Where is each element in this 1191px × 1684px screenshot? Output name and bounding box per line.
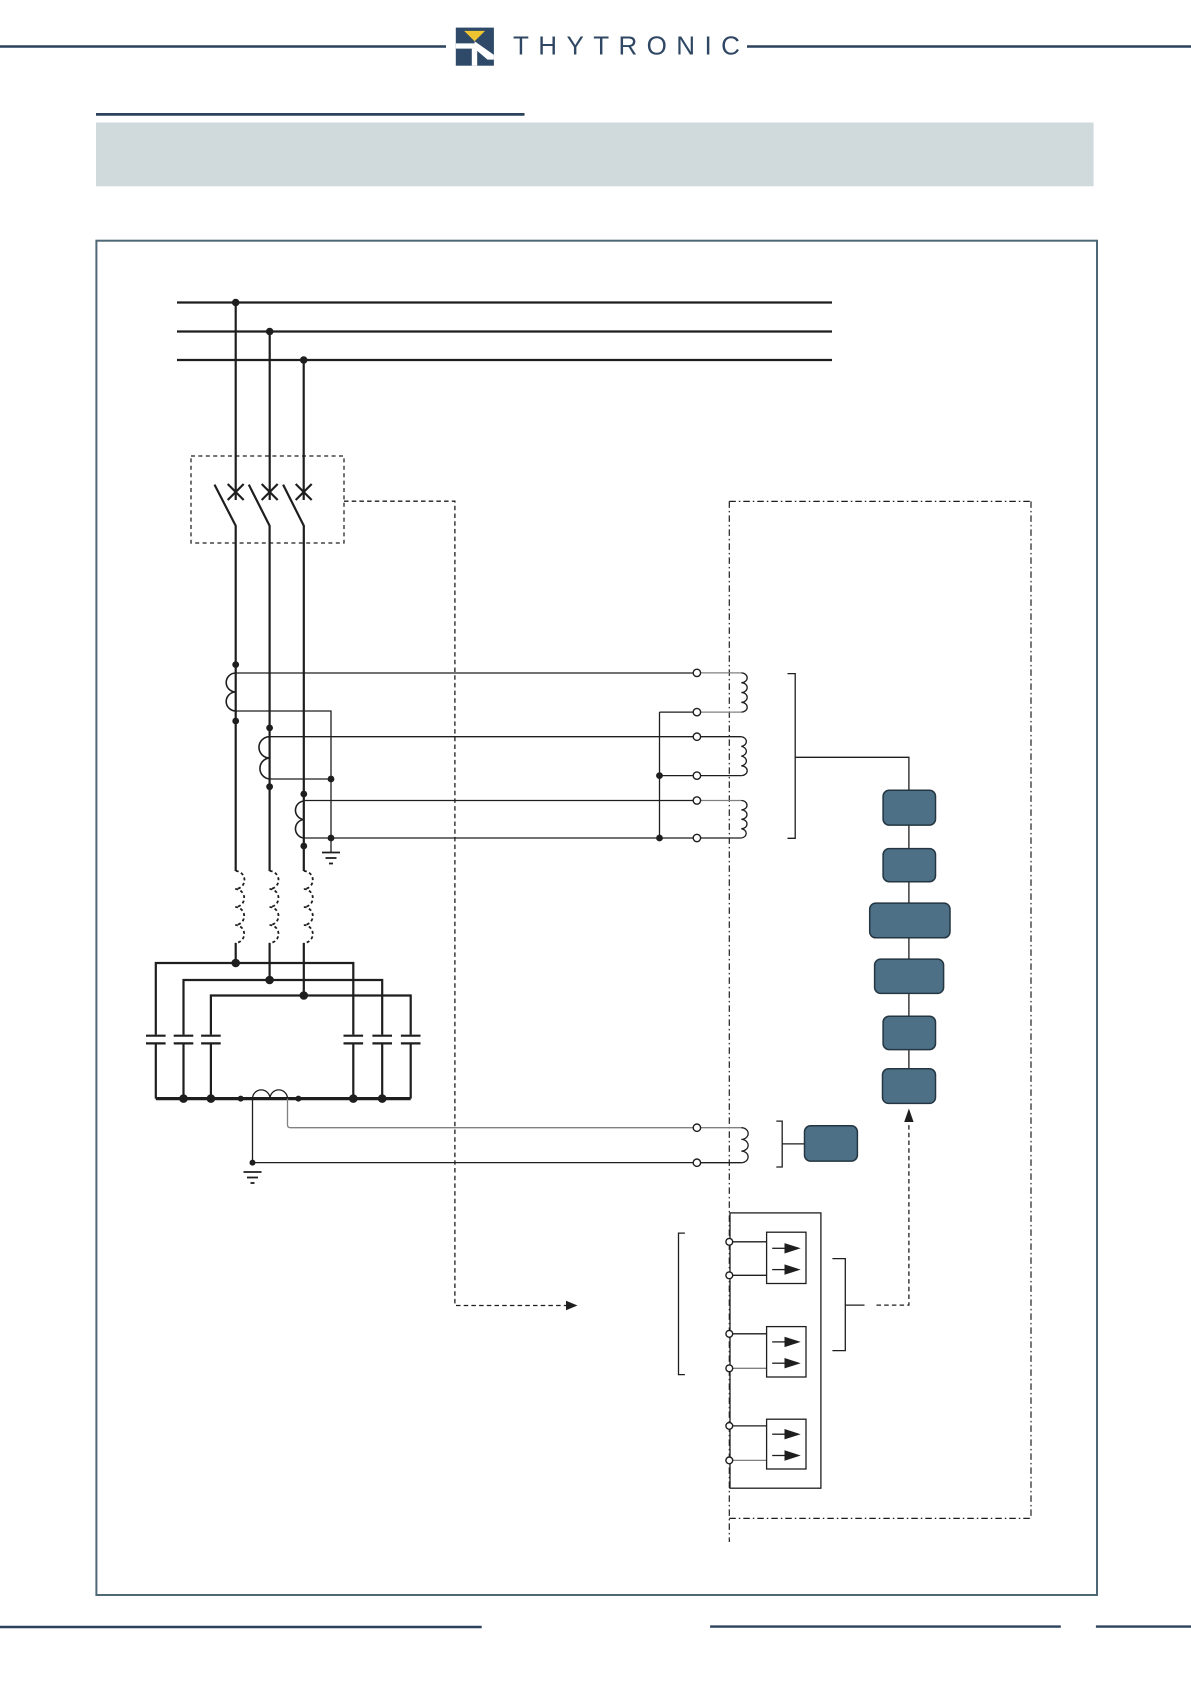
function block 4: [875, 959, 944, 993]
wire B reactor to rail: [269, 943, 271, 980]
opto output 1: [767, 1232, 806, 1283]
node CT C bottom: [300, 843, 307, 850]
logo Thytronic: [456, 28, 494, 66]
breaker pole C: [283, 484, 312, 871]
control dashed line from breaker: [344, 501, 566, 1305]
wire neutral to ground: [252, 1099, 254, 1163]
arrowhead trip command: [566, 1301, 578, 1311]
node tie w2: [656, 772, 663, 779]
wire ground sense: [253, 1162, 697, 1164]
CT phase A: [226, 673, 236, 711]
function block 3: [870, 903, 950, 938]
relay boundary dash-dot box: [729, 501, 1031, 1542]
function block 5: [883, 1016, 935, 1049]
wire CT A secondary top: [236, 672, 697, 674]
wire common return: [304, 837, 697, 839]
wire CT C secondary top: [304, 800, 697, 802]
relay winding 4: [701, 1128, 748, 1163]
ground CT star: [322, 853, 340, 864]
terminal circles outputs: [726, 1238, 733, 1463]
bracket toroid: [776, 1121, 782, 1167]
function block 6: [883, 1069, 936, 1104]
footer rule left: [0, 1626, 482, 1628]
wire winding2 return: [660, 775, 697, 777]
breaker pole A: [215, 484, 244, 871]
function block 2: [883, 849, 935, 882]
node rail A: [231, 959, 240, 968]
node bus L1 tap: [232, 299, 240, 307]
node neutral R2: [378, 1094, 387, 1103]
wire CT A secondary bottom to star: [236, 711, 331, 852]
arrowhead chain feedback: [904, 1109, 913, 1123]
wires output pair 1: [729, 1242, 766, 1276]
dashed feedback to chain: [877, 1124, 909, 1305]
diagram frame: [96, 241, 1097, 1595]
capacitor L1: [146, 1036, 166, 1099]
capacitor rail phase A: [156, 963, 353, 1035]
opto output 2: [767, 1327, 806, 1377]
title band: [96, 123, 1094, 187]
node CT B bottom: [266, 783, 273, 790]
node tie common: [656, 835, 663, 842]
relay winding 2: [701, 737, 747, 776]
neutral rail: [156, 1097, 411, 1100]
node CT A bottom: [232, 718, 239, 725]
bracket CT group: [788, 674, 796, 839]
binary output module box: [730, 1213, 821, 1488]
function block IE: [805, 1126, 858, 1161]
wires output pair 3: [729, 1426, 766, 1461]
breaker pole B: [249, 484, 278, 871]
node CT A top: [232, 661, 239, 668]
footer rule middle: [710, 1625, 1061, 1627]
capacitor L2: [174, 1036, 194, 1099]
wire bracket to IE block: [782, 1143, 804, 1145]
node neutral R1: [349, 1094, 358, 1103]
node bus L2 tap: [266, 328, 274, 336]
capacitor L3: [201, 1036, 221, 1099]
wire phase A drop: [235, 303, 237, 501]
wire C reactor to rail: [303, 943, 305, 996]
node star B: [328, 776, 335, 783]
opto output 3: [767, 1419, 806, 1469]
node CT B top: [266, 725, 273, 732]
wire toroid secondary gray: [288, 1099, 697, 1128]
wire winding1 return: [660, 711, 697, 713]
wire CT B secondary top: [270, 736, 697, 738]
node rail C: [300, 991, 309, 1000]
node bus L3 tap: [300, 356, 308, 364]
node toroid right: [295, 1096, 301, 1102]
bracket outputs right: [832, 1259, 845, 1351]
relay winding 1: [701, 673, 747, 712]
relay winding 3: [701, 801, 747, 839]
wire bracket tick: [845, 1304, 864, 1306]
node neutral L3: [207, 1094, 216, 1103]
capacitor R2: [372, 1036, 392, 1099]
header rule left: [0, 45, 446, 48]
node neutral L2: [179, 1094, 188, 1103]
footer rule right: [1096, 1625, 1191, 1627]
capacitor R1: [344, 1036, 364, 1099]
circuit breaker dashed enclosure: [191, 456, 344, 543]
node ground tap: [250, 1160, 256, 1166]
node star C: [328, 835, 335, 842]
capacitor rail phase C: [211, 996, 411, 1035]
busbar L2: [177, 330, 832, 332]
wire relay-side star tie: [659, 712, 661, 838]
ground neutral: [244, 1172, 262, 1183]
node CT C top: [300, 791, 307, 798]
toroidal CT: [253, 1090, 288, 1099]
function chain link lines: [908, 825, 910, 1069]
terminal circles CT inputs: [693, 669, 700, 842]
title underline: [96, 113, 525, 116]
reactor phase B: [270, 871, 279, 943]
capacitor rail phase B: [184, 980, 383, 1035]
svg-text:THYTRONIC: THYTRONIC: [513, 31, 749, 61]
header rule right: [747, 45, 1191, 48]
wire A reactor to rail: [235, 943, 237, 963]
node rail B: [265, 976, 274, 985]
capacitor R3: [401, 1036, 421, 1099]
busbar L1: [177, 301, 832, 303]
function block 1: [883, 790, 935, 825]
bracket outputs left: [679, 1233, 685, 1375]
CT phase C: [295, 801, 303, 838]
terminal circles toroid input: [693, 1124, 700, 1166]
reactor phase A: [235, 871, 244, 943]
CT phase B: [259, 737, 270, 779]
wire bracket to chain: [795, 757, 909, 790]
busbar L3: [177, 359, 832, 361]
wire phase B drop: [269, 332, 271, 501]
reactor phase C: [304, 871, 313, 943]
wires output pair 2: [729, 1334, 766, 1369]
wire CT B secondary bottom to star: [270, 778, 331, 780]
node toroid left: [238, 1096, 244, 1102]
wire phase C drop: [303, 360, 305, 500]
